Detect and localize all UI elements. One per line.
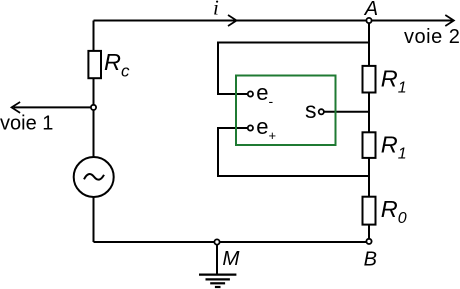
wire left branch middle segment xyxy=(93,78,95,157)
wire e+ loop: non-inverting input left-down to right branch xyxy=(218,128,369,176)
wire e- feedback: right branch down-left to inverting input xyxy=(218,43,369,95)
svg-text:s: s xyxy=(305,97,317,123)
resistor R1 top xyxy=(363,66,376,93)
wire right branch A to R1 xyxy=(368,23,370,66)
svg-text:B: B xyxy=(364,249,377,271)
wire s output to right branch xyxy=(324,111,369,113)
node A xyxy=(366,18,371,23)
wire right branch between R1 and R1 xyxy=(368,93,370,133)
svg-text:e-: e- xyxy=(256,80,273,109)
svg-text:R0: R0 xyxy=(381,196,407,227)
svg-text:R1: R1 xyxy=(381,66,407,97)
node M xyxy=(214,239,219,244)
resistor R1 bottom xyxy=(363,132,376,158)
wire right branch R0 to node B xyxy=(368,225,370,239)
pin e+ terminal xyxy=(248,125,253,130)
resistor R0 xyxy=(363,197,376,225)
svg-text:Rc: Rc xyxy=(104,49,130,81)
svg-text:voie 1: voie 1 xyxy=(0,112,53,134)
wire top rail from left branch corner to voie 2 arrow xyxy=(94,20,453,22)
arrowhead current i xyxy=(228,15,237,26)
wire voie 1 tap xyxy=(14,106,94,108)
AC source G1 xyxy=(74,157,114,197)
arrowhead voie 2 xyxy=(445,15,454,26)
AC source sine symbol xyxy=(84,174,104,180)
svg-text:M: M xyxy=(222,247,240,270)
svg-text:i: i xyxy=(213,0,219,20)
svg-text:e+: e+ xyxy=(256,114,276,143)
svg-text:A: A xyxy=(364,0,378,20)
pin e- terminal xyxy=(248,91,253,96)
resistor Rc xyxy=(88,51,101,78)
wire bottom rail xyxy=(94,241,370,243)
pin s terminal xyxy=(319,109,324,114)
node voie 1 junction xyxy=(91,105,96,110)
wire right branch between R1 and R0 xyxy=(368,158,370,197)
ground symbol xyxy=(199,275,236,287)
arrowhead voie 1 xyxy=(12,102,21,113)
ground stem wire at M xyxy=(216,242,218,274)
wire left branch top segment xyxy=(93,21,95,51)
svg-text:voie 2: voie 2 xyxy=(404,26,460,48)
svg-text:R1: R1 xyxy=(381,131,407,162)
op-amp U1 (green block) xyxy=(236,76,336,146)
wire left branch bottom segment xyxy=(93,197,95,242)
node B xyxy=(366,239,371,244)
